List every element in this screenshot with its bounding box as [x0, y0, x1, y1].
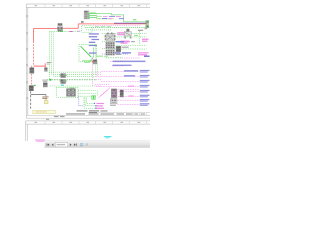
- wire green y45.2: [114, 44, 147, 46]
- magenta fanout diagonals: [98, 88, 110, 99]
- green dashed box with diagonal: [79, 45, 97, 62]
- gray W labels lower middle: [77, 110, 108, 113]
- magenta dashed y84.3: [95, 83, 110, 85]
- wire green second lead dashed: [97, 18, 114, 20]
- green text ticks above y27.7: [95, 25, 111, 28]
- wire dark horizontal: [31, 94, 46, 96]
- magenta tick on bus: [70, 31, 73, 32]
- green label text top: [90, 12, 102, 19]
- green text right: [134, 35, 138, 36]
- wire red main top: [78, 23, 147, 25]
- toolbar first-page button: [47, 143, 50, 146]
- wire red branch: [34, 65, 45, 67]
- component C: [29, 67, 34, 73]
- connector G2: [105, 42, 114, 49]
- component A: [84, 11, 90, 20]
- magenta text bits before labels: [128, 86, 134, 97]
- toolbar extra icon: [86, 143, 89, 146]
- cyan tick below J: [61, 85, 64, 86]
- magenta tails at line ends: [96, 72, 101, 86]
- terminal block right edge: [146, 21, 149, 28]
- relay L: [124, 29, 131, 39]
- magenta note sheet2: [35, 140, 46, 142]
- connector G1: [105, 33, 116, 42]
- green pin comb row: [87, 29, 111, 31]
- green dashed box around relay K: [56, 87, 78, 97]
- node green junction: [49, 79, 51, 81]
- blue text row y52 right: [114, 52, 131, 53]
- gray marks near terminal: [145, 28, 148, 29]
- sheet 2 frame: [26, 121, 150, 141]
- fuse E: [42, 80, 47, 88]
- green dashed box around B outputs: [82, 26, 92, 32]
- ground bar yellow: [33, 110, 55, 113]
- component M: [116, 46, 121, 55]
- node green tick at D: [34, 85, 36, 86]
- gray-brown text near dark wire: [42, 96, 48, 99]
- blue text rows: [89, 33, 146, 66]
- magenta text right pair: [142, 39, 149, 42]
- sheet 1 top zone ticks: [26, 4, 146, 105]
- toolbar view icon: [80, 143, 83, 146]
- wire green vertical lower: [96, 90, 98, 96]
- wire green below relays: [50, 85, 96, 87]
- wire green y49: [114, 48, 147, 50]
- wire magenta vertical: [92, 58, 94, 87]
- sheet 1 frame outer: [26, 4, 150, 118]
- green label K: [70, 87, 75, 89]
- wire dark stub down: [45, 95, 47, 100]
- wire green riser 2 with corner: [52, 32, 96, 75]
- wire red drop solid part: [33, 28, 35, 41]
- wire green vertical mid-right 2: [96, 63, 98, 76]
- relay J: [60, 79, 67, 84]
- wire green dashed y27.7: [85, 27, 147, 29]
- toolbar next button: [70, 143, 72, 146]
- green label above small comp: [82, 60, 92, 63]
- green rows across connector G: [102, 41, 121, 48]
- connector P with magenta marks: [111, 89, 117, 98]
- wires green right of relay box: [78, 90, 96, 96]
- toolbar last-page button: [74, 143, 77, 146]
- wire green riser 1 with corner: [49, 32, 95, 73]
- relay F at branch: [44, 62, 51, 72]
- sheet 1 zone labels: [27, 5, 141, 99]
- wire red C to D dashed: [31, 74, 33, 85]
- wire green y57.8: [106, 57, 123, 59]
- wire red stub into C: [31, 66, 33, 68]
- blue labels lower right: [140, 99, 150, 106]
- wire magenta y58: [122, 57, 140, 59]
- title block: [88, 113, 150, 116]
- wire red feed left: [34, 27, 58, 29]
- contactor K: [67, 89, 76, 96]
- magenta label rows lower middle: [96, 103, 104, 109]
- wire green dashed y33.5: [102, 33, 147, 35]
- wire green dashed bus y31.6: [49, 31, 79, 33]
- magenta leaders lower right: [118, 100, 140, 104]
- magenta leader lines right column: [96, 62, 140, 97]
- gray text below Q: [110, 105, 116, 106]
- wire green riser 1 extension to junction: [48, 72, 50, 80]
- toolbar prev button: [52, 143, 54, 146]
- label text below top wires: [133, 19, 143, 31]
- component B: [57, 23, 63, 32]
- component A leads green: [90, 14, 97, 18]
- wire green vertical mid-right: [95, 44, 97, 76]
- blue label text top: [102, 16, 124, 19]
- relay I: [60, 73, 67, 78]
- green fanout corners lower: [84, 98, 95, 109]
- wire dark drop from D: [30, 91, 32, 110]
- page number text: [46, 119, 49, 120]
- magenta text blocks: [117, 32, 148, 55]
- blue ticks at fanout ends: [94, 103, 97, 109]
- wire blue elbow lower: [79, 97, 84, 106]
- sheet 2 zone ticks: [45, 121, 147, 124]
- wire blue dashed mid: [102, 53, 128, 55]
- yellow icon: [44, 100, 48, 104]
- magenta label text top: [103, 16, 121, 19]
- cyan note sheet2: [104, 136, 112, 138]
- blue destination labels right column: [140, 70, 150, 97]
- wire red stub up at F: [44, 63, 46, 67]
- title block text: [54, 113, 145, 117]
- toolbar page field: [55, 142, 68, 147]
- component D: [29, 85, 34, 91]
- wire green vertical right: [139, 31, 141, 44]
- wire red B to riser: [63, 24, 78, 28]
- blue text right low: [144, 56, 150, 57]
- wire green dashed y37: [104, 36, 147, 38]
- gray text right of M: [122, 41, 136, 48]
- wire green vertical with diagonal: [90, 48, 94, 62]
- green label above y57.8: [96, 56, 108, 57]
- wire green top route: [90, 14, 147, 22]
- small comp under diagonal box: [92, 59, 97, 64]
- wire magenta dashed top: [93, 25, 140, 27]
- connector Q lower: [111, 99, 117, 104]
- wire green riser 3 with corner: [54, 32, 96, 77]
- green terminal below box: [92, 96, 96, 100]
- wire blue top: [114, 22, 147, 24]
- connector G3: [105, 49, 114, 55]
- wire green dashed via junction: [47, 79, 96, 81]
- component N lower right: [120, 90, 124, 97]
- inline blue labels on leaders: [124, 70, 138, 76]
- wire red drop dashed part: [33, 41, 35, 66]
